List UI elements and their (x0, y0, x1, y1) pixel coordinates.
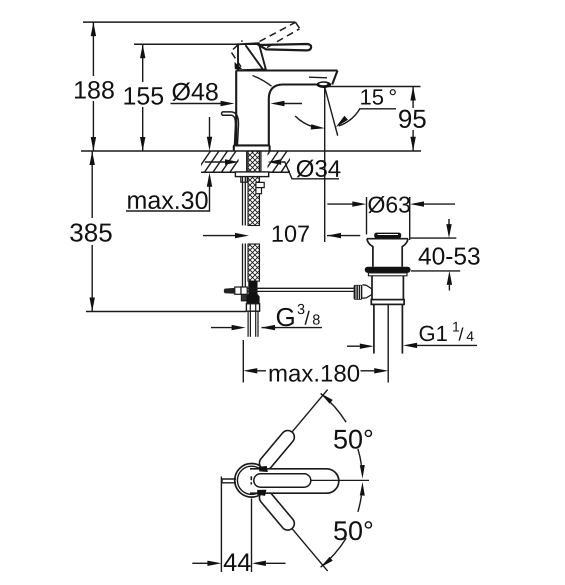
svg-text:95: 95 (398, 104, 427, 134)
svg-text:44: 44 (223, 549, 251, 577)
svg-text:50°: 50° (333, 425, 374, 455)
svg-text:Ø48: Ø48 (171, 78, 218, 106)
svg-text:107: 107 (271, 221, 310, 247)
svg-text:/: / (304, 309, 310, 330)
svg-text:8: 8 (312, 313, 320, 329)
svg-text:max.180: max.180 (268, 361, 360, 388)
svg-text:4: 4 (466, 328, 474, 344)
svg-text:385: 385 (69, 217, 112, 247)
svg-text:40-53: 40-53 (418, 244, 481, 271)
svg-text:Ø63: Ø63 (367, 192, 410, 218)
svg-text:188: 188 (73, 76, 115, 104)
svg-text:155: 155 (122, 82, 164, 110)
svg-text:G1: G1 (418, 321, 447, 346)
svg-text:Ø34: Ø34 (296, 156, 341, 183)
svg-text:15 °: 15 ° (359, 85, 397, 110)
svg-text:G: G (275, 302, 295, 332)
svg-text:50°: 50° (333, 516, 374, 546)
svg-text:max.30: max.30 (126, 187, 208, 215)
svg-text:/: / (458, 325, 463, 345)
